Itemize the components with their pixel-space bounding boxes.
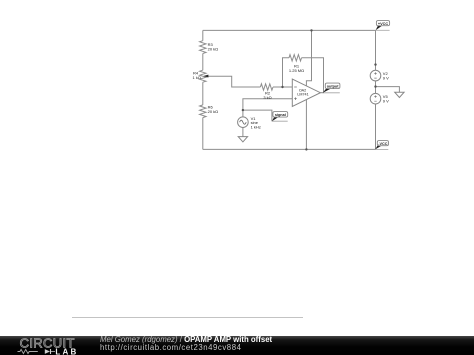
ground G2 (right supply ground) bbox=[395, 92, 404, 97]
voltage source V5 bbox=[370, 93, 381, 104]
svg-text:20 kΩ: 20 kΩ bbox=[208, 46, 219, 51]
wire R6 to bottom rail bbox=[202, 118, 204, 150]
divider line above footer bbox=[72, 317, 303, 318]
svg-text:9 V: 9 V bbox=[383, 99, 389, 104]
svg-text:9 V: 9 V bbox=[383, 76, 389, 81]
flag +VCC bbox=[376, 21, 390, 31]
label V1 value bbox=[251, 116, 261, 130]
label V5 value bbox=[383, 94, 389, 104]
voltage source V2 bbox=[370, 70, 381, 81]
node dot inverting input bbox=[281, 86, 283, 88]
wire R3 to R4 bbox=[202, 54, 204, 71]
svg-text:20 kΩ: 20 kΩ bbox=[208, 109, 219, 114]
wire bottom rail bbox=[203, 148, 376, 150]
resistor R3 bbox=[200, 41, 206, 54]
node dot V+ at top rail bbox=[310, 29, 312, 31]
wire op-amp V+ pin to top rail bbox=[306, 30, 311, 86]
flag signal bbox=[272, 112, 288, 122]
label R6 value bbox=[208, 105, 219, 114]
svg-text:1 kHz: 1 kHz bbox=[251, 124, 261, 129]
svg-text:3 kΩ: 3 kΩ bbox=[263, 95, 271, 100]
svg-text:1.25 MΩ: 1.25 MΩ bbox=[289, 68, 304, 73]
wire inverting node up to R1 bbox=[283, 58, 290, 87]
wire R1 to output node bbox=[302, 58, 324, 93]
wire V1 node to non-inverting input bbox=[243, 99, 292, 117]
svg-text:output: output bbox=[327, 85, 340, 89]
wire top rail bbox=[203, 29, 376, 31]
op-amp plus sign bbox=[294, 97, 297, 100]
label R3 value bbox=[208, 42, 219, 51]
wire R4 wiper to R2 bbox=[207, 76, 261, 87]
wire right rail top segment bbox=[375, 30, 377, 70]
svg-text:LAB: LAB bbox=[55, 347, 78, 355]
footer credit text bbox=[100, 336, 272, 352]
voltage source V1 (sine) bbox=[238, 117, 249, 128]
svg-text:+VCC: +VCC bbox=[378, 22, 388, 26]
wire V2 to V5 bbox=[375, 81, 377, 94]
op-amp OA2 triangle bbox=[292, 79, 320, 106]
op-amp output stub bbox=[320, 92, 323, 94]
footer black bar bbox=[0, 336, 474, 355]
label OA2 LM741 bbox=[297, 89, 308, 97]
wire signal stub bbox=[243, 110, 272, 121]
label V2 value bbox=[383, 71, 389, 81]
svg-text:LM741: LM741 bbox=[297, 93, 308, 97]
node dot V2 top pin bbox=[374, 63, 376, 65]
potentiometer R4 bbox=[200, 70, 206, 82]
potentiometer R4 wiper arrow bbox=[203, 75, 208, 78]
wire V2V5 node to ground G2 bbox=[376, 87, 400, 93]
svg-text:OA2: OA2 bbox=[299, 89, 306, 93]
label R1 value bbox=[289, 64, 304, 74]
label R4 value bbox=[193, 71, 201, 81]
wire R2 to inverting input bbox=[273, 86, 292, 88]
op-amp minus sign bbox=[294, 86, 297, 88]
node dot V1 top junction bbox=[242, 109, 244, 111]
wire V1 to ground bbox=[242, 128, 244, 137]
svg-text:-VCC: -VCC bbox=[378, 142, 388, 146]
resistor R1 bbox=[289, 55, 302, 61]
wire R4 to R6 bbox=[202, 82, 204, 105]
node dot V2 V5 junction bbox=[374, 85, 376, 87]
CircuitLab logo bbox=[0, 332, 95, 355]
resistor R2 bbox=[260, 84, 273, 90]
wire left rail upper segment bbox=[202, 30, 204, 40]
node dot V- at bottom rail bbox=[305, 148, 307, 150]
ground G1 (V1 ground) bbox=[238, 137, 247, 142]
wire V5 to bottom rail bbox=[375, 104, 377, 149]
label R2 value bbox=[263, 90, 271, 100]
flag -VCC bbox=[375, 141, 388, 150]
svg-text:1 kΩ: 1 kΩ bbox=[193, 75, 201, 80]
flag output bbox=[323, 83, 340, 93]
svg-text:signal: signal bbox=[275, 113, 286, 117]
resistor R6 bbox=[200, 105, 206, 118]
wire op-amp V- pin to bottom rail bbox=[305, 100, 307, 150]
